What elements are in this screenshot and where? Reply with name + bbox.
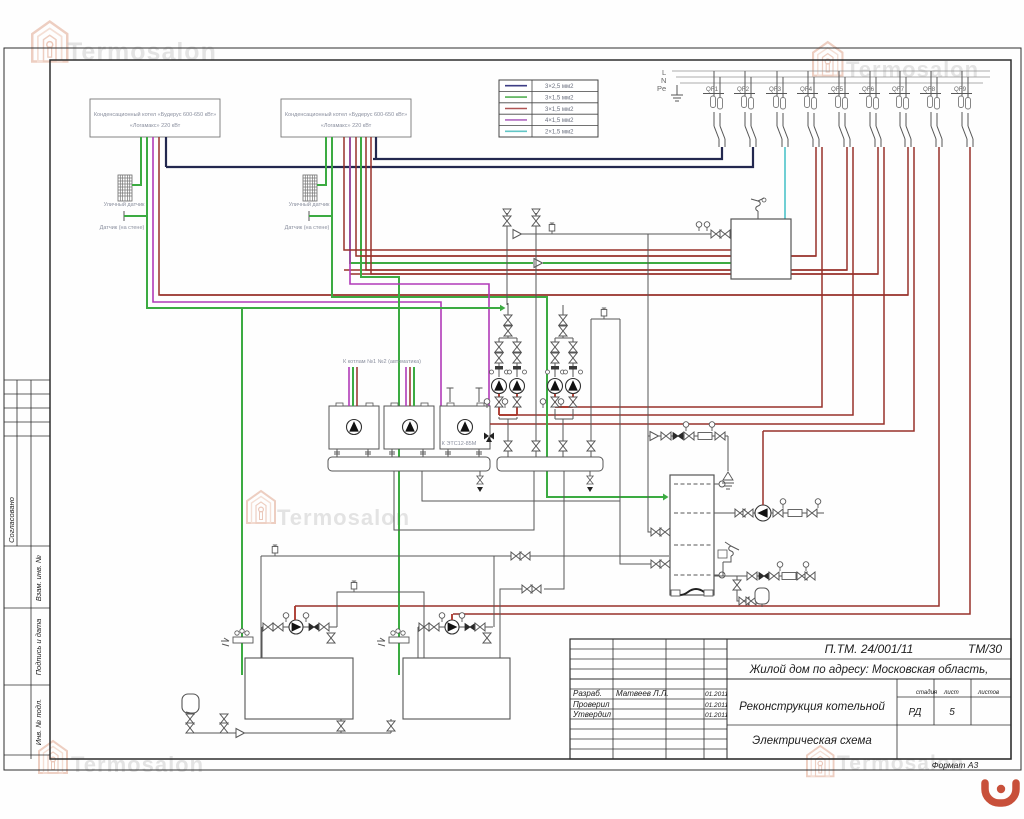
buffer tank 1 [245,658,353,719]
wire magenta K2 to mixing valve [350,137,489,430]
group 1 valves [263,613,335,643]
svg-text:3×1,5 мм2: 3×1,5 мм2 [545,107,574,113]
wire QF9 red drop [453,147,970,614]
control box [731,219,791,279]
manifold 2 [497,457,603,471]
controller box K2 [281,99,411,137]
wire QF1 navy drop [373,147,722,159]
green arrow to pump riser [242,305,506,311]
pressure regulator squiggle [718,542,739,576]
wire dark red K2 to QF4 [356,137,816,256]
breaker QF5 [828,71,850,147]
boiler 2 pump [403,420,418,435]
svg-text:Конденсационный котел «Будерус: Конденсационный котел «Будерус 600-650 к… [94,111,216,118]
wire dark red K2 to control box [344,137,731,250]
breaker QF1 [703,71,725,147]
pump group B red outlets [540,394,577,408]
boiler 1 pump [347,420,362,435]
wire dark red K1 to QF7 [159,137,908,295]
svg-text:Проверил: Проверил [573,700,610,709]
gray pipe manifold1 to tank upper [422,319,652,564]
svg-text:П.ТМ. 24/001/11: П.ТМ. 24/001/11 [825,642,914,656]
wire dark red K2 to QF5 [366,137,847,270]
expansion vessel bottom left [182,694,199,714]
ground symbol [671,85,683,101]
wire QF3 cyan drop [784,147,786,219]
title block grid [570,639,1011,759]
wire QF7 red drop pair [160,147,914,431]
svg-text:3×1,5 мм2: 3×1,5 мм2 [545,95,574,101]
svg-text:Инв. № подл.: Инв. № подл. [34,699,43,746]
svg-text:QF2: QF2 [737,86,750,93]
wire navy K2 to QF1 [375,137,377,159]
pump group A pumps [492,379,525,394]
expansion vessel valves [186,713,194,733]
svg-text:4×1,5 мм2: 4×1,5 мм2 [545,118,574,124]
svg-text:Согласовано: Согласовано [7,497,16,543]
tank bottom outlet train y576 [714,562,815,580]
flue T pins [447,388,483,402]
group1 riser top [336,592,338,627]
boiler 3 [440,403,490,449]
storage tank [670,475,714,596]
watermark bottom-left [39,741,204,777]
svg-text:Датчик (на стене): Датчик (на стене) [100,225,145,231]
watermark bottom-right [807,746,965,776]
manifold 2 extra stubs [532,308,620,457]
group 2 pump [445,620,459,634]
tank pump outlet train [771,499,824,517]
wire QF5 red drop pair [344,147,853,415]
bottom fill pipe [190,732,391,734]
svg-text:3×2,5 мм2: 3×2,5 мм2 [545,84,574,90]
svg-text:Конденсационный котел «Будерус: Конденсационный котел «Будерус 600-650 к… [285,111,407,118]
pump group B riser [555,305,573,377]
small expansion vessel near tank [733,576,769,607]
pump group B to manifold [555,409,573,457]
svg-text:«Логамакс» 220 кВт: «Логамакс» 220 кВт [321,123,372,129]
long pipe to tank left [261,545,669,658]
svg-text:Реконструкция котельной: Реконструкция котельной [739,701,885,713]
drain stack on fill pipe [220,714,228,733]
power bus L N Pe [657,68,990,93]
tank1 bottom connection [337,719,345,733]
svg-text:ТМ/30: ТМ/30 [968,642,1002,656]
cable legend table [499,80,598,137]
svg-text:Датчик (на стене): Датчик (на стене) [285,225,330,231]
svg-text:QF3: QF3 [769,86,782,93]
wire navy K1 to QF2 [165,137,167,167]
thermo pocket on control pipe [549,223,555,234]
wire QF8 red drop [295,147,939,606]
breaker QF3 [766,71,788,147]
svg-text:Подпись и дата: Подпись и дата [34,619,43,676]
pump group B branch valves [546,342,583,374]
tank internal dashes [674,484,712,575]
wire green K2 down to pump group 2 [361,137,399,675]
svg-text:Взам. инв. №: Взам. инв. № [34,555,43,601]
group 1 red riser [294,606,296,620]
bottom mixing group 2 pipe [418,627,493,658]
pressure switch squiggle above control box [751,198,766,219]
svg-text:QF4: QF4 [800,86,813,93]
stamp column lines [4,380,50,759]
outdoor sensor block 1 [118,175,132,201]
group 1 pump [289,620,303,634]
watermark top-left [32,22,217,67]
valve pair tank mid inlet [651,528,700,536]
valve pair tank mid-low inlet [651,560,700,568]
boiler 3 pump [458,420,473,435]
svg-text:Формат А3: Формат А3 [932,760,979,770]
vent riser 506 [503,209,511,305]
breaker QF8 [920,71,942,147]
pump group A to manifold [499,417,517,457]
svg-text:2×1,5 мм2: 2×1,5 мм2 [545,130,574,136]
breaker QF4 [797,71,819,147]
group 2 sensor cluster [377,629,409,646]
svg-text:QF5: QF5 [831,86,844,93]
pump group A branch valves [490,342,527,374]
valve pair on pipe 589 [500,585,541,658]
wire QF4 red drop pair [361,147,822,407]
svg-text:Pe: Pe [657,84,666,93]
wire green K1 wall sensor and down to tank group 1 [124,137,242,675]
svg-text:РД: РД [909,707,922,718]
svg-text:QF6: QF6 [862,86,875,93]
check valve on control pipe [513,230,522,239]
wire magenta K1 to boiler 3 [153,137,468,433]
vent riser 536 [532,209,540,457]
svg-text:Разраб.: Разраб. [573,689,602,698]
manifold 1 [328,457,490,471]
wall sensor 1 [100,211,145,231]
controller box K1 [90,99,220,137]
svg-text:стадия: стадия [916,690,938,696]
safety train above tank [648,422,734,489]
tank lower right circle [714,572,725,578]
boiler to manifold stubs [334,449,482,457]
wall sensor 2 [285,211,330,231]
outdoor sensor block 2 [303,175,317,201]
tank2 bottom connection [387,719,395,733]
svg-text:Termosalon: Termosalon [67,38,217,66]
group 1 sensor cluster [221,629,253,646]
gray pipe manifold2 down left around [544,471,564,589]
three way mixing valve at boiler 3 [484,424,508,442]
tank pump [755,505,771,521]
boiler 2 cable drops [406,367,414,406]
svg-text:QF9: QF9 [954,86,967,93]
svg-text:5: 5 [949,707,955,718]
wire green K2 outdoor sensor 2 [317,137,326,185]
sensor label 1 [104,201,145,208]
boiler cable label [343,359,421,365]
tank top right relief circle [714,481,725,487]
orange logo [985,783,1016,803]
group2 riser top [493,556,495,627]
pipe group1 riser to tank2 [337,581,424,658]
svg-text:01.2011: 01.2011 [705,702,728,709]
svg-text:Termosalon: Termosalon [71,752,204,777]
wire green K1 outdoor sensor [132,137,141,185]
pump group A red outlets [484,394,521,415]
svg-text:01.2011: 01.2011 [705,691,728,698]
svg-text:QF8: QF8 [923,86,936,93]
wire green K2 to control box [350,137,731,263]
svg-text:Утвердил: Утвердил [572,710,612,719]
breaker QF2 [734,71,756,147]
svg-text:Жилой дом по адресу: Московска: Жилой дом по адресу: Московская область, [749,664,989,676]
pump group B pumps [548,379,581,394]
title block texts [572,642,1002,770]
svg-text:QF7: QF7 [892,86,905,93]
wire QF2 navy drop [166,147,753,167]
watermark top-right [813,42,979,82]
svg-text:Электрическая схема: Электрическая схема [752,735,871,747]
gray control pipe y234 [513,233,731,235]
svg-text:Уличный датчик: Уличный датчик [104,201,145,208]
group 2 red riser [451,614,453,620]
breaker QF7 [889,71,911,147]
svg-text:Матвеев Л.Л.: Матвеев Л.Л. [616,689,669,698]
boiler 3 model label [442,441,477,447]
check valve on fill pipe [236,729,245,738]
manifold 2 drain [587,471,593,492]
sensor label 2 [289,201,330,208]
gray pipe from control area to tank upper-mid [648,234,652,532]
gray loop manifold1 to manifold2 [394,471,534,530]
watermark center-left [247,491,410,530]
svg-text:QF1: QF1 [706,86,719,93]
svg-text:Termosalon: Termosalon [277,505,410,530]
svg-text:К ЭТС12-85М: К ЭТС12-85М [442,441,477,447]
svg-text:«Логамакс» 220 кВт: «Логамакс» 220 кВт [130,123,181,129]
manifold 1 drain [477,471,483,492]
wire dark red K2 to QF6 [371,137,878,274]
pump group A riser [499,303,517,377]
wire green K2 wall sensor 2 and to storage tank [309,137,669,501]
svg-text:Уличный датчик: Уличный датчик [289,201,330,208]
boiler 1 [329,403,379,449]
svg-text:лист: лист [943,690,959,696]
svg-text:листов: листов [977,690,999,696]
gauges near control box [696,222,710,231]
group 2 valves [419,613,491,643]
boiler 2 [384,403,434,449]
boiler 1 cable drops [349,367,357,406]
svg-text:01.2011: 01.2011 [705,712,728,719]
red drop QF7 to tank pump [762,431,764,505]
wire QF6 red drop pair [350,147,884,424]
svg-text:К котлам №1 №2 (автоматика): К котлам №1 №2 (автоматика) [343,359,421,365]
tank pump line y513 [714,509,755,517]
breaker QF6 [859,71,881,147]
breaker QF9 [951,71,973,147]
stamp rotated labels [7,497,43,745]
bottom mixing group 1 pipe [262,627,337,658]
buffer tank 2 [403,658,510,719]
valve pair before control box [711,230,730,238]
check valve on green wire [534,259,543,268]
